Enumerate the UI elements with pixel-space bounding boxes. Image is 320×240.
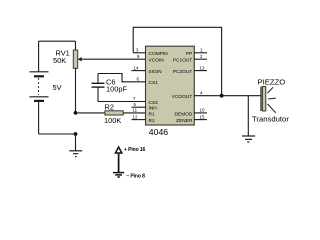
wire pin 4 VCOOUT to piezo <box>194 95 261 97</box>
svg-text:R2: R2 <box>149 118 155 124</box>
svg-text:INH: INH <box>149 106 158 112</box>
wire down to ground <box>75 134 77 151</box>
svg-text:13: 13 <box>200 65 205 70</box>
svg-text:VCOIN: VCOIN <box>149 58 165 64</box>
pin 15 stub <box>194 119 207 121</box>
svg-text:4046: 4046 <box>149 127 168 137</box>
svg-text:PP: PP <box>186 51 192 57</box>
pin 10 stub <box>194 112 207 114</box>
svg-text:+ Pino 16: + Pino 16 <box>124 147 146 153</box>
pin 1 stub <box>194 52 207 54</box>
pin 12 stub <box>132 119 146 121</box>
ground (left) <box>69 151 82 157</box>
svg-text:100pF: 100pF <box>106 85 127 94</box>
svg-text:PIEZZO: PIEZZO <box>258 77 286 86</box>
svg-text:DEMOD: DEMOD <box>174 111 192 117</box>
capacitor C6 <box>92 74 105 102</box>
svg-text:100K: 100K <box>104 116 121 125</box>
svg-text:14: 14 <box>134 65 139 70</box>
junction dot RV1/R2 node <box>74 111 78 115</box>
svg-text:CX2: CX2 <box>149 100 159 106</box>
svg-text:10: 10 <box>200 108 205 113</box>
ground (piezo) <box>242 136 255 142</box>
svg-text:PC1OUT: PC1OUT <box>173 58 193 64</box>
svg-text:PC2OUT: PC2OUT <box>173 69 193 75</box>
pin 14 stub <box>132 70 146 72</box>
wire battery bottom <box>39 133 76 135</box>
wire battery top to RV1 top <box>39 40 76 42</box>
wire RV1 wiper to pin 9 VCOIN <box>80 58 146 60</box>
piezo transducer LS1 <box>261 87 276 113</box>
IC U1 4046 body <box>146 46 195 125</box>
svg-text:Transdutor: Transdutor <box>252 115 289 124</box>
svg-text:CX1: CX1 <box>149 80 159 86</box>
wire piezo branch to ground <box>247 96 249 136</box>
svg-text:12: 12 <box>133 114 138 119</box>
pin 2 stub <box>194 58 207 60</box>
power ground (pin 8) <box>113 173 124 177</box>
svg-text:VCOOUT: VCOOUT <box>172 94 193 100</box>
svg-text:50K: 50K <box>53 56 66 65</box>
power terminal arrow (pin 16) <box>115 147 121 172</box>
pin 5 stub <box>132 106 146 108</box>
svg-text:COMPIN: COMPIN <box>149 51 169 57</box>
wire C6 top to pin 6 CX1 <box>98 74 146 82</box>
pin 3 stub <box>133 52 145 54</box>
battery BT1 5V <box>30 41 49 134</box>
wire C6 bottom to pin 7 CX2 <box>98 101 146 103</box>
svg-text:5V: 5V <box>53 83 62 92</box>
junction dot output node <box>220 94 224 98</box>
junction dot RV1/battery bottom node <box>74 132 78 136</box>
wire pin 3 loop over IC to output node <box>133 27 221 95</box>
svg-text:15: 15 <box>200 114 205 119</box>
svg-text:11: 11 <box>133 108 138 113</box>
potentiometer RV1 <box>73 41 81 113</box>
svg-text:SIGIN: SIGIN <box>149 69 163 75</box>
svg-text:R2: R2 <box>105 103 114 112</box>
resistor R2 <box>76 111 146 115</box>
pin 13 stub <box>194 70 207 72</box>
svg-text:R1: R1 <box>149 111 155 117</box>
svg-text:ZENER: ZENER <box>176 118 193 124</box>
svg-text:– Pino 8: – Pino 8 <box>126 173 145 179</box>
